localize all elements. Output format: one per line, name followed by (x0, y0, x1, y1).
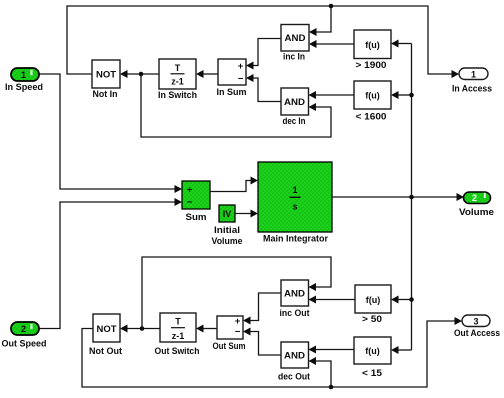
block Initial Volume IV (212, 205, 243, 247)
wire f(u) gt 50 to inc Out lower input (309, 296, 356, 304)
svg-text:inc In: inc In (283, 52, 305, 63)
junction dot f(u) gt 50 (409, 297, 414, 302)
svg-text:< 1600: < 1600 (356, 112, 387, 123)
wire Initial Volume to Main Integrator input 2 (235, 210, 258, 218)
wire dec In to In Sum minus (246, 74, 281, 102)
wire f(u) lt 1600 to dec In upper input (309, 91, 355, 99)
svg-text:+: + (187, 184, 193, 195)
svg-text:Initial: Initial (214, 225, 240, 236)
svg-text:z-1: z-1 (171, 76, 184, 86)
block Out Switch (155, 313, 200, 357)
svg-text:Out Switch: Out Switch (155, 346, 200, 357)
svg-text:+: + (238, 61, 244, 72)
svg-text:AND: AND (284, 97, 305, 108)
wire Out Speed to Sum minus (39, 198, 182, 329)
svg-text:+: + (235, 316, 241, 327)
svg-text:AND: AND (284, 351, 305, 362)
wire stub to f(u) gt 50 input (391, 296, 412, 304)
svg-text:f(u): f(u) (366, 295, 381, 305)
block Not Out (89, 314, 123, 357)
svg-text:In Sum: In Sum (217, 87, 247, 98)
svg-text:AND: AND (285, 33, 306, 44)
svg-text:−: − (187, 197, 193, 208)
svg-text:Out Speed: Out Speed (2, 339, 47, 350)
svg-text:Volume: Volume (459, 207, 494, 218)
wire In Switch to Not In (120, 70, 159, 78)
junction dot top line (329, 4, 334, 9)
svg-text:inc Out: inc Out (280, 308, 311, 319)
svg-text:In Access: In Access (452, 84, 492, 95)
svg-text:Out Sum: Out Sum (213, 341, 246, 352)
port Out Access (454, 315, 500, 339)
wire inc Out to Out Sum plus (243, 293, 281, 325)
svg-text:f(u): f(u) (365, 346, 380, 356)
svg-text:s: s (292, 202, 297, 212)
wire Not In loop to In Access (67, 6, 459, 78)
svg-text:T: T (175, 63, 181, 73)
wire f(u) lt 15 to dec Out upper input (309, 346, 355, 354)
svg-text:In Speed: In Speed (5, 82, 43, 93)
svg-text:Not In: Not In (93, 89, 118, 100)
block Out Sum (213, 316, 246, 352)
wire main feedback vertical (411, 44, 413, 351)
port In Speed (5, 68, 43, 93)
block f(u) lt 1600 (354, 81, 391, 123)
svg-text:z-1: z-1 (172, 331, 185, 341)
svg-text:Sum: Sum (186, 212, 207, 223)
junction dot f(u) lt 1600 (409, 93, 414, 98)
junction dot Out Switch output (140, 326, 145, 331)
svg-text:f(u): f(u) (365, 91, 380, 101)
wire Out Sum to Out Switch (196, 325, 217, 333)
port Out Speed (2, 322, 47, 350)
junction dot bottom line (329, 385, 334, 390)
svg-text:dec In: dec In (283, 116, 306, 127)
wire In Sum to In Switch (196, 70, 218, 78)
svg-text:dec Out: dec Out (278, 372, 311, 383)
svg-text:> 1900: > 1900 (356, 60, 387, 71)
block f(u) lt 15 (354, 337, 391, 379)
gate inc In (281, 25, 309, 63)
svg-text:3: 3 (473, 316, 478, 326)
svg-text:1: 1 (292, 185, 297, 195)
wire branch top line to inc In upper input (309, 6, 331, 36)
wire dec Out to Out Sum minus (243, 328, 281, 356)
junction dot In Switch output (139, 72, 144, 77)
gate dec In (281, 88, 309, 127)
port In Access (452, 68, 492, 95)
wire In Speed to Sum plus (39, 74, 182, 193)
wire branch bottom line to dec Out lower input (309, 357, 332, 387)
svg-text:AND: AND (284, 289, 305, 300)
wire stub to f(u) gt 1900 input (391, 40, 412, 48)
svg-text:Volume: Volume (212, 236, 243, 247)
block In Switch (158, 59, 197, 101)
svg-text:2: 2 (21, 324, 26, 334)
port Volume (459, 192, 494, 218)
block Sum (182, 181, 210, 223)
block Main Integrator (258, 162, 332, 245)
wire f(u) gt 1900 to inc In lower input (309, 40, 354, 48)
block In Sum (217, 59, 247, 98)
svg-text:T: T (175, 316, 181, 326)
svg-text:f(u): f(u) (365, 40, 380, 50)
svg-text:−: − (238, 73, 244, 84)
svg-text:< 15: < 15 (362, 368, 383, 379)
svg-text:NOT: NOT (96, 70, 116, 81)
svg-text:−: − (235, 327, 241, 338)
wire Sum to Main Integrator input 1 (210, 177, 258, 192)
wire inc In to In Sum plus (246, 39, 281, 70)
block f(u) gt 1900 (354, 30, 391, 71)
svg-text:In Switch: In Switch (158, 90, 197, 101)
wire Main Integrator to Volume (332, 193, 464, 201)
wire branch Out Switch output to inc Out upper input (142, 257, 331, 329)
svg-text:Not Out: Not Out (89, 346, 123, 357)
junction dot Volume line to f(u) vertical (409, 195, 414, 200)
svg-text:Main Integrator: Main Integrator (263, 234, 328, 245)
svg-text:2: 2 (472, 193, 477, 203)
block f(u) gt 50 (355, 285, 391, 325)
svg-text:1: 1 (21, 70, 26, 80)
svg-text:> 50: > 50 (362, 314, 382, 325)
svg-text:1: 1 (471, 69, 476, 79)
svg-text:IV: IV (223, 209, 232, 219)
wire Out Switch to Not Out (120, 325, 160, 333)
wire branch In Switch output to dec In lower input (141, 74, 331, 137)
wire Not Out loop to Out Access (82, 317, 462, 387)
svg-text:Out Access: Out Access (454, 328, 500, 339)
block Not In (92, 60, 120, 100)
svg-text:NOT: NOT (97, 324, 117, 335)
wire stub to f(u) lt 1600 input (391, 91, 412, 99)
gate inc Out (280, 280, 311, 319)
wire stub to f(u) lt 15 input (391, 346, 412, 354)
gate dec Out (278, 342, 311, 383)
